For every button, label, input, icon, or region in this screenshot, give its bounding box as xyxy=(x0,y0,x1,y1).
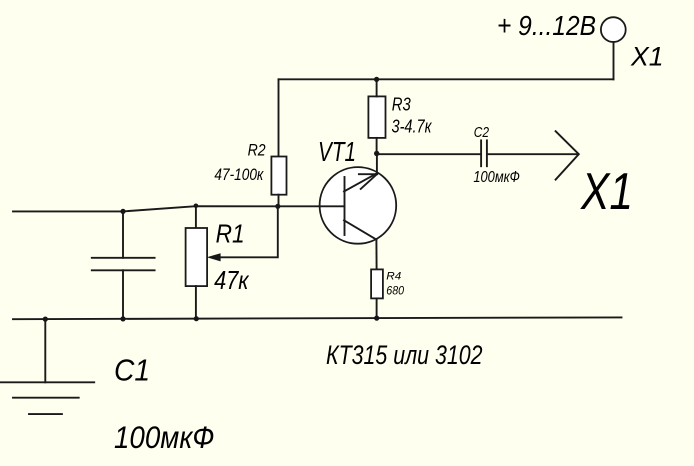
wire: input line xyxy=(13,206,278,211)
node: collector junction xyxy=(374,151,379,156)
wire: top rail to R2 xyxy=(278,79,280,156)
ground symbol xyxy=(1,382,95,414)
resistor R3 xyxy=(368,96,385,137)
capacitor C1 top lead xyxy=(122,211,124,257)
svg-text:3-4.7к: 3-4.7к xyxy=(392,117,433,137)
resistor R2 xyxy=(271,157,286,195)
wire: top supply rail xyxy=(279,78,614,80)
capacitor C2 xyxy=(481,140,487,166)
potentiometer R1 top lead xyxy=(195,206,197,228)
wire: base node to transistor base xyxy=(278,205,345,207)
svg-text:C1: C1 xyxy=(114,353,150,388)
svg-text:VT1: VT1 xyxy=(318,136,356,167)
potentiometer R1 wiper arrowhead xyxy=(207,253,221,261)
wire: R3 to collector node xyxy=(376,138,378,154)
wire: C2 to output arrow xyxy=(488,153,578,155)
transistor VT1 base wire inside circle xyxy=(321,205,345,207)
resistor R4 xyxy=(371,269,383,298)
node: R1 top junction xyxy=(194,204,199,209)
node: R3 top rail junction xyxy=(374,77,379,82)
svg-text:100мкФ: 100мкФ xyxy=(114,419,215,455)
capacitor C1 bottom lead xyxy=(122,270,124,319)
potentiometer R1 bottom lead xyxy=(195,286,197,319)
svg-text:R2: R2 xyxy=(248,141,266,160)
transistor VT1 collector arrow barb diagonal xyxy=(361,174,377,189)
svg-text:R1: R1 xyxy=(216,219,245,249)
wire: collector node to C2 xyxy=(377,153,481,155)
transistor VT1 collector arrow barb horizontal xyxy=(359,173,377,175)
svg-text:680: 680 xyxy=(386,285,404,297)
node: base junction xyxy=(275,204,280,209)
svg-text:КТ315 или 3102: КТ315 или 3102 xyxy=(326,340,483,370)
transistor VT1 base bar xyxy=(344,177,346,235)
wire: wiper from base node xyxy=(220,206,278,257)
node: input/C1 junction xyxy=(120,209,125,214)
terminal X1 power circle xyxy=(601,17,626,42)
wire: top rail to R3 xyxy=(376,79,378,96)
svg-text:X1: X1 xyxy=(630,42,663,72)
node: R4 bottom junction xyxy=(374,316,379,321)
svg-text:47к: 47к xyxy=(214,265,250,295)
transistor VT1 collector line xyxy=(344,173,377,191)
wire: R4 to bottom rail xyxy=(376,298,378,318)
wire: collector up to R3 node xyxy=(376,153,378,174)
node: C1 bottom junction xyxy=(120,316,125,321)
svg-text:+ 9...12В: + 9...12В xyxy=(497,10,596,41)
transistor VT1 emitter line xyxy=(344,220,376,239)
wire: bottom ground rail xyxy=(13,317,622,319)
node: R1 bottom junction xyxy=(194,316,199,321)
svg-text:C2: C2 xyxy=(474,124,490,141)
ground lead xyxy=(44,319,46,382)
svg-text:X1: X1 xyxy=(580,163,633,221)
wire: R2 to base node xyxy=(278,195,280,207)
wire: X1 terminal to top rail xyxy=(613,42,615,79)
transistor VT1 emitter wire to R4 xyxy=(375,240,377,270)
potentiometer R1 xyxy=(186,228,208,286)
svg-text:47-100к: 47-100к xyxy=(214,165,264,184)
output arrow chevron xyxy=(556,131,579,179)
transistor VT1 circle xyxy=(320,167,397,244)
node: ground tap junction xyxy=(43,317,48,322)
svg-text:R3: R3 xyxy=(392,95,411,115)
svg-text:R4: R4 xyxy=(386,270,401,282)
svg-text:100мкФ: 100мкФ xyxy=(473,169,520,186)
capacitor C1 xyxy=(92,258,155,271)
